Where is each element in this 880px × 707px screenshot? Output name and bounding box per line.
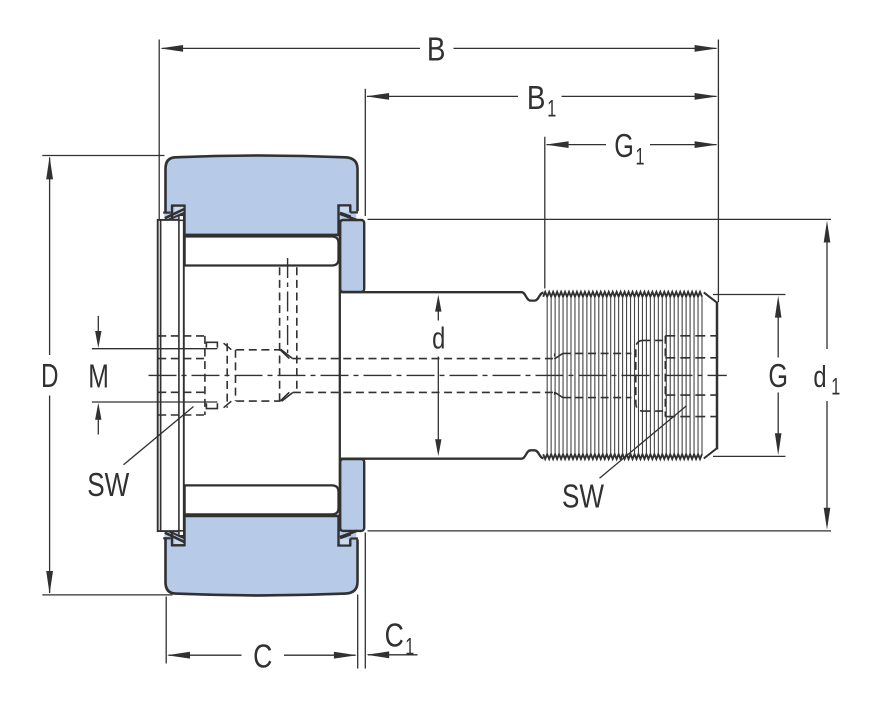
svg-text:B: B — [427, 32, 446, 69]
svg-text:SW: SW — [87, 467, 129, 504]
svg-text:G: G — [768, 358, 788, 395]
svg-text:G: G — [614, 128, 634, 165]
svg-text:C: C — [385, 617, 404, 654]
svg-text:D: D — [41, 358, 59, 395]
svg-text:B: B — [527, 80, 546, 117]
svg-text:SW: SW — [562, 478, 604, 515]
svg-text:M: M — [88, 358, 109, 395]
svg-text:1: 1 — [636, 144, 645, 171]
svg-text:1: 1 — [405, 633, 414, 660]
svg-text:d: d — [813, 359, 826, 394]
svg-text:C: C — [253, 638, 272, 675]
svg-text:1: 1 — [547, 96, 556, 123]
svg-text:1: 1 — [831, 374, 840, 401]
svg-text:d: d — [432, 321, 445, 356]
